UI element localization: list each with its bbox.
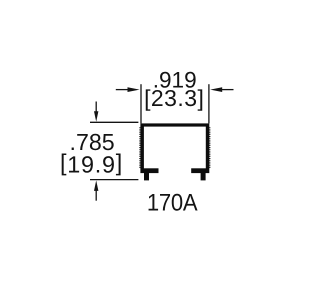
svg-text:170A: 170A [147,190,198,217]
height dim: bottom arrowhead [94,180,98,191]
left wall [140,126,144,168]
height dim: bottom arrow shaft [95,190,97,201]
width dim: left extension line [140,84,142,123]
height dim text [19.9] [60,149,123,177]
width dim text .919 [153,67,197,92]
height dim text .785 [70,129,115,155]
width dim: left arrowhead [128,87,140,92]
extrusion profile 170A: top bar [140,123,209,126]
height dim: top arrowhead [94,111,98,122]
left bottom flange [140,168,158,173]
width dim: right arrow shaft [222,89,234,91]
height dim: top extension line [90,121,138,123]
part label 170A [147,190,198,217]
width dim: right arrowhead [210,87,222,92]
left wall serration [139,127,141,168]
right wall serration [209,127,211,168]
right wall [206,126,210,168]
svg-text:[19.9]: [19.9] [60,149,123,177]
height dim: bottom extension line [90,179,138,181]
width dim text [23.3] [144,85,204,111]
svg-text:[23.3]: [23.3] [144,85,204,111]
right bottom flange [191,168,209,173]
width dim: right extension line [208,84,210,123]
left bottom stub [144,173,149,181]
height dim: top arrow shaft [95,102,97,113]
width dim: left arrow shaft [116,89,129,91]
right bottom stub [201,173,206,181]
